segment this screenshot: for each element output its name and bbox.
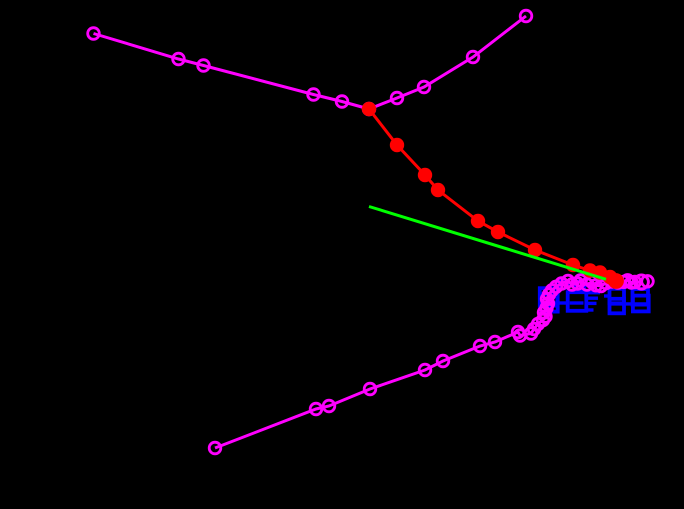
blue dashed series with open square markers [540,279,651,313]
lower magenta curve: line [215,280,641,448]
green straight line [369,207,606,280]
upper magenta V curve: line [94,16,527,109]
upper magenta V curve: open circle markers [88,10,532,115]
lower magenta curve: open circle markers [209,275,653,454]
red curve: line [369,109,616,281]
red curve: filled circle markers [362,102,624,289]
